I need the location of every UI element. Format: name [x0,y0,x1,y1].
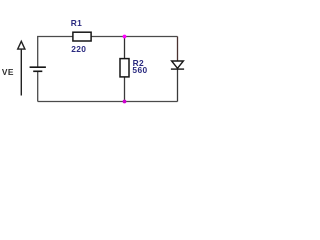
wire top rail right segment [91,36,177,38]
resistor R2 [120,59,129,77]
wire R2 branch top [124,37,126,60]
svg-text:220: 220 [71,44,86,54]
resistor R1 [73,32,91,41]
arrow VE (voltage indicator) [18,41,25,95]
node junction dot bottom [123,100,127,104]
svg-text:VE: VE [2,67,14,77]
diode D1 [171,61,184,69]
wire bottom rail [38,101,178,103]
battery B1 [30,67,46,71]
wire left rail lower [37,71,39,101]
wire top rail left segment [38,37,73,68]
wire R2 branch bottom [124,77,126,102]
node junction dot top [123,35,127,39]
svg-text:R1: R1 [71,18,83,28]
svg-text:560: 560 [132,65,147,75]
wire diode anode pin [177,37,179,62]
wire diode cathode pin [177,69,179,101]
